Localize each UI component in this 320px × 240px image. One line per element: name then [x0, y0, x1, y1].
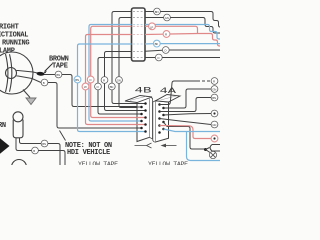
wire: conduit-right black y11.5 with connector, staircase down, exits right [145, 11, 154, 13]
svg-text:RN: RN [0, 122, 6, 130]
wire: lamp bottom terminal [18, 76, 41, 83]
wire: blue branch down x186.5 to bottom blue [187, 132, 221, 161]
capsule connector cut by right edge [210, 145, 220, 152]
horn wire upper [20, 138, 42, 144]
wire: horn lower continues, turns down at x65 to bottom edge [39, 151, 66, 166]
wire: 4A pin6 right, down x190, to junction and splice fork [164, 122, 205, 149]
svg-text:RUNNING: RUNNING [2, 40, 29, 48]
conduit (dashed harness block) [132, 8, 146, 61]
wire: conduit-left blue y44 down x77.5 to pin 131.5 [78, 44, 146, 132]
wire: from connector down x57 to 4B pin row 128 (NOTE wire) [48, 83, 142, 129]
svg-text:GN: GN [212, 88, 216, 92]
svg-text:4B: 4B [135, 86, 152, 96]
bullet connector on lamp bottom wire [41, 79, 48, 86]
svg-text:GN: GN [165, 16, 169, 20]
wire: horn upper continues, turns down at x60 to bottom edge [48, 144, 60, 166]
4B pin wire stubs inside block [137, 104, 146, 132]
wire: conduit-right black y50 with connector, exits right edge [145, 50, 162, 51]
4B pins [140, 102, 147, 133]
wire: lamp top terminal (brown tape wire) [18, 71, 55, 75]
bullet connector on lamp top wire [55, 71, 62, 78]
wire: conduit-right red y26.3 with connector, down joins red y33.5 [145, 25, 149, 27]
mate arrow under 4A (solid left arrow) [161, 144, 177, 148]
wire: conduit-right blue y44 with connector, exits right edge [145, 43, 153, 45]
svg-text:GN: GN [117, 79, 121, 83]
svg-text:R: R [165, 33, 167, 37]
wire: conduit-right black y17.5 with connector, staircase, exits right [145, 17, 164, 19]
svg-text:BN: BN [42, 142, 46, 146]
bullet connector horn lower wire [32, 147, 39, 154]
wire: 4A pin4 right to circle (dot) [164, 114, 212, 116]
NOTE leader line [60, 131, 66, 141]
wire: 4A pin3 up x196 right to circle BN [160, 98, 212, 112]
connector block 4B [125, 96, 153, 142]
svg-text:BK: BK [155, 42, 159, 46]
svg-text:RIGHT: RIGHT [0, 24, 19, 32]
svg-text:R: R [103, 79, 105, 83]
wire: conduit-left black y51.5 down x104.5 to pin 110.5 [105, 52, 146, 111]
wire: 4A pin8 blue right to x217.5 down to bottom, exits right [164, 129, 221, 132]
wire: 4A pin2 up x186 right to circle GN [164, 89, 212, 108]
wire: 4A pin5 right slope down to circle GN [160, 119, 212, 125]
label: BROWN TAPE with arrow [43, 56, 69, 74]
wire: conduit-right blue y24.5 staircase down, exits right [145, 25, 220, 40]
4A pins [158, 103, 165, 134]
svg-text:ECTIONAL: ECTIONAL [0, 32, 28, 40]
wire: from connector to corner x72 down to 4B pin row 107 [62, 75, 142, 107]
wire: conduit-right black y57.5 with connector, exits right edge [145, 57, 155, 59]
wire: 4A pin7 red down x193 right to red circle [160, 126, 212, 139]
connector block 4A [153, 95, 180, 143]
svg-text:LP: LP [150, 25, 153, 29]
wire: conduit-left red y26.3 down x90.7 to pin 117.5 [91, 26, 146, 117]
horn wire lower [16, 138, 32, 151]
svg-text:YELLOW TAPE: YELLOW TAPE [78, 161, 118, 165]
wire: conduit-left black y17.5 down x119 to pin 107 [119, 18, 142, 108]
wire: conduit-left red y34.5 down x85.5 to pin 124.5 [86, 35, 146, 125]
wire: conduit-left blue y24.5 down x89 to pin 121 [89, 25, 142, 122]
wire: 4A pin1 up x172 then right to circle R (dashed end) [160, 81, 198, 105]
svg-text:BN: BN [75, 78, 79, 82]
ground symbol under lamp [23, 90, 36, 105]
horn arrow (solid black triangle) [0, 138, 10, 155]
svg-text:YELLOW TAPE: YELLOW TAPE [148, 161, 188, 165]
svg-text:TAPE: TAPE [52, 63, 68, 71]
wire: conduit-right red y34.5 with connector, staircase, exits right [145, 33, 163, 35]
label: RIGHT DIRECTIONAL RUNNING LAMP [0, 24, 29, 56]
svg-text:BN: BN [155, 10, 159, 14]
wire: conduit-left black y57.5 down x98 to pin 114 [98, 58, 142, 115]
svg-text:GN: GN [212, 123, 216, 127]
horn cylinder component [13, 112, 23, 138]
svg-text:BN: BN [212, 96, 216, 100]
brown tape blob on wire [36, 71, 44, 76]
svg-text:HDI VEHICLE: HDI VEHICLE [67, 149, 110, 157]
wire: conduit-left black y11.5 down x112 to pin 103.5 [112, 12, 146, 104]
svg-text:BN: BN [110, 85, 114, 89]
mate arrow under 4B (open fork) [135, 143, 152, 148]
bullet connectors on left vertical wires [74, 76, 81, 83]
lamp (right directional running lamp) [0, 52, 33, 94]
splice circle with X [209, 151, 216, 158]
svg-text:R: R [213, 80, 215, 84]
bullet connector horn upper wire [41, 140, 48, 147]
svg-text:BN: BN [56, 73, 60, 77]
partial component circle at bottom edge [12, 160, 27, 175]
